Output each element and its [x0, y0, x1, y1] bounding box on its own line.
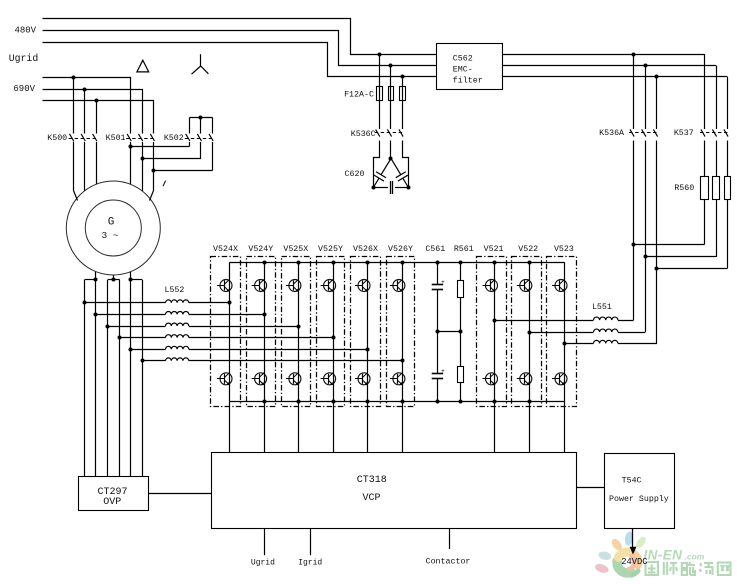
svg-text:.com: .com — [685, 552, 705, 562]
svg-text:690V: 690V — [13, 84, 35, 94]
svg-text:OVP: OVP — [103, 497, 121, 508]
svg-text:Ugrid: Ugrid — [9, 53, 39, 64]
svg-text:K537: K537 — [674, 129, 694, 138]
svg-text:V521: V521 — [484, 245, 504, 254]
svg-text:L551: L551 — [592, 303, 612, 312]
svg-text:V522: V522 — [518, 245, 538, 254]
svg-text:3 ~: 3 ~ — [101, 230, 118, 241]
svg-text:R560: R560 — [674, 184, 694, 193]
svg-text:K536C: K536C — [351, 130, 376, 139]
svg-text:V526X: V526X — [353, 245, 378, 254]
svg-text:V525X: V525X — [283, 245, 308, 254]
svg-text:V524Y: V524Y — [248, 245, 273, 254]
svg-text:Igrid: Igrid — [298, 558, 322, 567]
svg-text:CT318: CT318 — [357, 475, 387, 486]
svg-text:T54C: T54C — [622, 477, 642, 486]
svg-text:V523: V523 — [554, 245, 574, 254]
svg-text:480V: 480V — [14, 26, 36, 36]
svg-text:VCP: VCP — [362, 493, 380, 504]
svg-text:+: + — [441, 279, 445, 286]
svg-text:K500: K500 — [47, 134, 67, 143]
svg-text:F12A-C: F12A-C — [344, 91, 374, 100]
svg-text:R561: R561 — [454, 245, 474, 254]
svg-text:C562: C562 — [453, 55, 473, 64]
svg-text:C620: C620 — [345, 170, 365, 179]
svg-text:G: G — [108, 217, 115, 229]
svg-text:V524X: V524X — [213, 245, 238, 254]
svg-text:IN-EN: IN-EN — [644, 548, 683, 563]
svg-text:Ugrid: Ugrid — [251, 558, 275, 567]
svg-text:Power Supply: Power Supply — [609, 494, 669, 504]
svg-text:V526Y: V526Y — [388, 245, 413, 254]
svg-text:K501: K501 — [106, 134, 126, 143]
svg-text:filter: filter — [453, 76, 483, 86]
svg-text:K536A: K536A — [599, 129, 624, 138]
svg-text:K502: K502 — [164, 134, 184, 143]
svg-text:+: + — [441, 368, 445, 375]
svg-text:C561: C561 — [425, 245, 445, 254]
svg-text:V525Y: V525Y — [318, 245, 343, 254]
svg-text:EMC-: EMC- — [453, 66, 473, 75]
svg-text:L552: L552 — [164, 286, 184, 295]
svg-text:24VDC: 24VDC — [621, 557, 647, 567]
svg-text:Contactor: Contactor — [426, 558, 471, 567]
